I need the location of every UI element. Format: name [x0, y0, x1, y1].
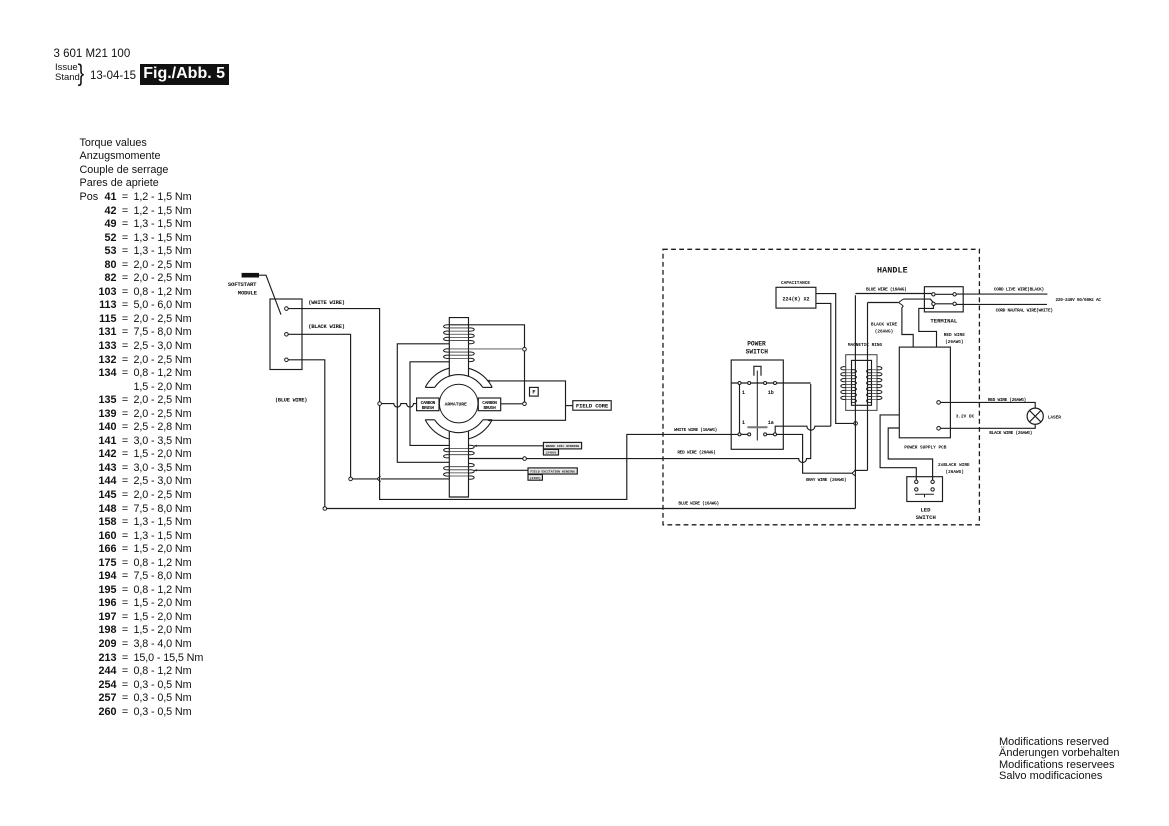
svg-text:TERMINAL: TERMINAL [930, 317, 957, 324]
svg-text:F: F [532, 389, 536, 396]
arrow to bottom pole shoe [487, 419, 490, 421]
svg-text:224(K) X2: 224(K) X2 [782, 296, 809, 302]
header part number [54, 48, 131, 60]
laser cross 2 [1030, 411, 1041, 422]
handle enclosure dashed border [663, 249, 979, 525]
field core pointer bracket [488, 381, 566, 420]
switch moving contact bar [747, 426, 767, 428]
red wire pcb to laser [940, 402, 1035, 408]
wire brake tap to red node [469, 458, 523, 460]
blue wire bottom run to handle [327, 508, 856, 510]
svg-text:SWITCH: SWITCH [746, 349, 769, 356]
switch top contact 4 [774, 382, 777, 385]
pole shoe bottom right end cut [483, 419, 492, 421]
power switch S1 box [731, 360, 783, 449]
stub to field core box [566, 405, 573, 407]
black wire pcb to laser [940, 424, 1035, 428]
white wire from softstart to power switch [288, 309, 738, 500]
blue wire from softstart down [288, 360, 325, 507]
wire terminal contact 3 to pcb [919, 306, 937, 348]
svg-text:BRUSH: BRUSH [422, 405, 435, 411]
svg-text:BLUE WIRE (16AWG): BLUE WIRE (16AWG) [678, 502, 719, 507]
terminal contact 1 [932, 293, 935, 296]
cord neutral wire [956, 303, 1047, 305]
top field winding part 1 [449, 328, 468, 341]
svg-text:2xBLACK WIRE: 2xBLACK WIRE [938, 463, 970, 468]
svg-text:POWER SUPPLY PCB: POWER SUPPLY PCB [904, 445, 947, 450]
node: black wire terminal [349, 477, 353, 481]
wire outer left bracket [397, 344, 449, 463]
black wire riser through magnetic ring [867, 303, 869, 471]
wire crimp down to pcb [902, 306, 913, 347]
svg-text:220-240V 50/60Hz AC: 220-240V 50/60Hz AC [1055, 298, 1101, 303]
switch top contact 1 [738, 382, 741, 385]
red wire run to power switch [526, 384, 810, 463]
wire node to crimp [352, 478, 376, 480]
svg-text:(26AWG): (26AWG) [945, 340, 963, 345]
arrow to top pole shoe [487, 380, 490, 382]
wire top winding tap down to node [449, 325, 524, 348]
wire inner left bracket [410, 362, 449, 446]
led switch actuator tick [924, 494, 926, 497]
led switch contact 3 [915, 488, 918, 491]
laser lamp symbol [1027, 408, 1043, 424]
field excitation winding coil [449, 467, 468, 476]
terminal contact 3 [932, 302, 935, 305]
top field core stack [449, 318, 468, 377]
softstart module label (struck-out part number) [242, 273, 259, 278]
switch bottom c1-c2 link [741, 433, 748, 435]
svg-text:MAGNETIC RING: MAGNETIC RING [848, 343, 883, 348]
switch bottom contact 3 [764, 433, 767, 436]
switch actuator [754, 366, 761, 375]
softstart pin 2 (black) [285, 333, 289, 337]
wire winding tap to node (faint) [449, 348, 522, 350]
carbon brush right box [478, 398, 500, 411]
blue wire to terminal [855, 293, 931, 295]
node: red wire terminal [523, 457, 527, 461]
switch left vertical link [739, 385, 741, 433]
field excitation winding label [528, 468, 577, 474]
magnetic ring winding right wall [872, 370, 878, 400]
wire node to armature node [524, 351, 526, 402]
wire switch 1b to red riser [777, 382, 811, 384]
svg-text:(240V): (240V) [545, 451, 556, 455]
node: blue wire joins bottom blue run [323, 507, 327, 511]
blue wire riser through magnetic ring [854, 295, 856, 508]
brake coil pointer arrow [474, 445, 477, 447]
svg-text:1: 1 [742, 420, 745, 426]
gray wire from switch to crimp [777, 434, 852, 473]
softstart module U1 box [270, 299, 302, 370]
field pole shoe top [425, 368, 492, 387]
svg-text:HANDLE: HANDLE [877, 265, 908, 275]
torque values table [80, 137, 204, 720]
node on field tap [523, 347, 527, 351]
black wire pcb to led switch 1 [880, 415, 916, 480]
softstart pin 3 (blue) [285, 358, 289, 362]
terminal block box [924, 287, 963, 312]
svg-text:RED WIRE (26AWG): RED WIRE (26AWG) [988, 398, 1026, 403]
switch actuator shaft [756, 371, 758, 441]
svg-text:BLACK WIRE (26AWG): BLACK WIRE (26AWG) [989, 431, 1032, 436]
svg-text:1b: 1b [768, 390, 774, 396]
led switch contact 1 [915, 480, 918, 483]
brake coil winding label [543, 442, 581, 449]
svg-text:SWITCH: SWITCH [916, 514, 936, 521]
armature left lead with hops over bracket risers [381, 404, 416, 408]
switch bottom contact 4 [774, 433, 777, 436]
figure label box [140, 64, 229, 85]
magnetic ring winding left wall [846, 370, 852, 400]
svg-text:WHITE WIRE (16AWG): WHITE WIRE (16AWG) [674, 428, 717, 433]
crimp joint gray/black wire [852, 470, 856, 476]
wire crimp to field winding left tap [381, 478, 450, 480]
switch top contact 2 [748, 382, 751, 385]
led switch actuator bar [915, 493, 934, 495]
svg-text:ARMATURE: ARMATURE [445, 402, 467, 408]
black wire horizontal to crimp [868, 302, 899, 304]
svg-text:FIELD CORE: FIELD CORE [576, 403, 609, 410]
leader line from label to softstart module [259, 275, 281, 315]
black wire pcb to led switch 2 [888, 428, 932, 480]
terminal bottom link [935, 303, 953, 305]
pole shoe top left end cut [425, 386, 434, 388]
node: armature right lead [523, 402, 527, 406]
wire crimp to terminal contact 3 [903, 299, 933, 303]
svg-text:GRAY WIRE (26AWG): GRAY WIRE (26AWG) [806, 478, 847, 483]
capacitor wire 2 to switch 1a [816, 303, 831, 426]
switch bottom contact 2 [748, 433, 751, 436]
svg-text:(BLACK WIRE): (BLACK WIRE) [308, 323, 345, 330]
capacitor box [776, 287, 816, 308]
svg-text:(240V): (240V) [530, 476, 541, 480]
svg-text:(26AWG): (26AWG) [875, 330, 893, 335]
switch bottom contact 1 [738, 433, 741, 436]
svg-text:POWER: POWER [747, 340, 766, 347]
pcb laser - terminal [937, 427, 941, 431]
node: white wire / armature left lead [378, 402, 382, 406]
svg-text:RED WIRE (26AWG): RED WIRE (26AWG) [677, 450, 715, 455]
switch top contact 3 [764, 382, 767, 385]
svg-text:BRAKE COIL WINDING: BRAKE COIL WINDING [546, 444, 580, 448]
magnetic ring core [852, 360, 872, 405]
svg-text:(26AWG): (26AWG) [945, 470, 963, 475]
svg-text:RED WIRE: RED WIRE [944, 333, 965, 338]
svg-text:(WHITE WIRE): (WHITE WIRE) [308, 299, 345, 306]
svg-text:BLACK WIRE: BLACK WIRE [871, 323, 898, 328]
terminal contact 2 [953, 293, 956, 296]
svg-text:MODULE: MODULE [238, 290, 258, 297]
laser cross 1 [1030, 411, 1041, 422]
svg-text:1: 1 [742, 390, 745, 396]
brake coil winding coil [449, 449, 468, 455]
switch top row connection [731, 382, 773, 384]
armature right lead [501, 403, 523, 405]
terminal contact 4 [953, 302, 956, 305]
svg-text:1a: 1a [768, 420, 774, 426]
pcb laser + terminal [937, 401, 941, 405]
top field winding part 2 [449, 352, 468, 358]
field pole shoe bottom [425, 420, 492, 439]
link crimp to black wire end [854, 469, 867, 471]
svg-text:3.2V DC: 3.2V DC [956, 415, 975, 420]
field excitation pointer arrow [474, 469, 477, 471]
power supply pcb box [899, 347, 950, 438]
svg-text:CAPACITANCE: CAPACITANCE [781, 281, 810, 286]
led switch contact 2 [931, 480, 934, 483]
brake coil pointer line [476, 445, 543, 447]
capacitor wire 1 to blue node [816, 294, 854, 424]
svg-text:LED: LED [920, 506, 931, 513]
svg-text:SOFTSTART: SOFTSTART [228, 281, 257, 288]
wire switch 1a stub to capacitor (hop over riser) [775, 426, 831, 433]
terminal top link [935, 293, 953, 295]
carbon brush left box [417, 398, 439, 411]
armature circle [439, 384, 478, 423]
svg-text:CORD LIVE WIRE(BLACK): CORD LIVE WIRE(BLACK) [994, 288, 1044, 293]
pole shoe top right end cut [483, 386, 492, 388]
svg-text:LASER: LASER [1048, 415, 1062, 420]
magnetic ring outer outline [846, 355, 877, 411]
crimp joint on white wire (black wire junction) [377, 476, 381, 482]
svg-text:FIELD EXCITATION WINDING: FIELD EXCITATION WINDING [530, 470, 575, 474]
softstart pin 1 (white) [285, 307, 289, 311]
svg-text:CORD NAUTRAL WIRE(WHITE): CORD NAUTRAL WIRE(WHITE) [996, 309, 1053, 314]
crimp joint black/terminal/pcb [899, 299, 904, 306]
switch bottom row right link [765, 433, 775, 435]
footer notes [999, 737, 1119, 784]
field core label box [573, 401, 611, 411]
pole shoe bottom left end cut [425, 419, 434, 421]
led switch box [907, 477, 943, 502]
svg-text:BLUE WIRE (16AWG): BLUE WIRE (16AWG) [866, 288, 907, 293]
led switch contact 4 [931, 488, 934, 491]
black wire from softstart down [288, 334, 350, 477]
svg-text:(BLUE WIRE): (BLUE WIRE) [275, 397, 307, 403]
cord live wire [956, 293, 1047, 295]
node: capacitor to blue wire [854, 422, 858, 426]
bottom field core stack [449, 431, 468, 497]
F box [530, 387, 539, 396]
field excitation pointer line [476, 469, 528, 471]
issue/stand [55, 63, 80, 84]
svg-text:BRUSH: BRUSH [483, 405, 496, 411]
